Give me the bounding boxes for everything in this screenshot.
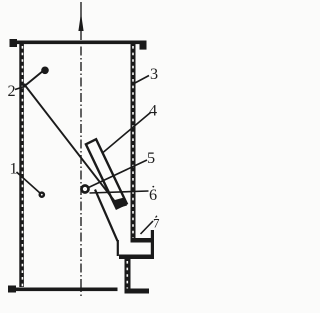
svg-text:6: 6 bbox=[149, 186, 157, 204]
bottom edge of vessel bbox=[8, 288, 118, 292]
speck above 6 bbox=[152, 186, 154, 188]
svg-text:7: 7 bbox=[153, 216, 160, 231]
outlet shelf (upper, to the right) bbox=[131, 238, 154, 243]
leader 4 bbox=[103, 113, 151, 153]
svg-text:1: 1 bbox=[9, 160, 17, 178]
node dot 1 bbox=[39, 191, 46, 198]
svg-text:2: 2 bbox=[7, 82, 15, 100]
leader 3 bbox=[134, 76, 149, 84]
outlet right vertical bbox=[151, 230, 154, 259]
leader 6 bbox=[90, 191, 149, 193]
top edge of vessel bbox=[10, 41, 147, 45]
lower discharge pipe wall (section with dashes) bbox=[125, 259, 131, 293]
outlet bottom shelf bbox=[119, 255, 154, 260]
leader 5 bbox=[89, 160, 148, 188]
tick above 7 bbox=[156, 216, 158, 218]
leader 2 bbox=[15, 87, 25, 90]
counterweight ball bbox=[41, 67, 49, 75]
centerline (vertical dash-dot axis) bbox=[80, 2, 82, 296]
svg-text:3: 3 bbox=[150, 65, 158, 83]
leader 1 bbox=[17, 172, 41, 194]
counterweight stem bbox=[24, 71, 44, 87]
top-left end cap bbox=[10, 39, 18, 47]
lower pipe foot bbox=[125, 289, 150, 294]
inclined chute plate bbox=[95, 190, 118, 242]
flap plate (tilted rectangle) bbox=[86, 139, 127, 208]
bottom-left foot bbox=[8, 286, 16, 293]
pivot circle bbox=[82, 186, 89, 193]
svg-text:4: 4 bbox=[149, 102, 157, 120]
top-right end cap bbox=[140, 41, 147, 50]
right wall (section with dashes) bbox=[131, 43, 136, 240]
chute lower vertical bbox=[117, 240, 119, 256]
leader 7 bbox=[141, 221, 154, 234]
flap tip blob bbox=[113, 198, 127, 209]
svg-text:5: 5 bbox=[147, 149, 155, 167]
lever rod (from wall bracket to flap tip) bbox=[24, 84, 120, 208]
left wall (section with dashes) bbox=[19, 43, 24, 287]
flow arrow (upward) bbox=[78, 13, 83, 31]
wall bracket junction bbox=[23, 84, 27, 88]
